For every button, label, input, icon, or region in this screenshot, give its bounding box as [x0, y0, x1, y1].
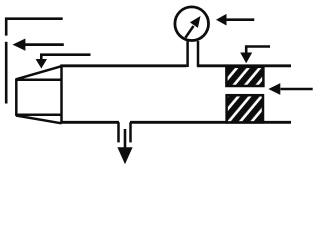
gauge needle [185, 16, 200, 38]
porous plug upper (hatched block) [226, 67, 263, 86]
bent arrow B (onto nozzle cone) [36, 55, 91, 69]
flow arrow A (upper-left, pointing left) [13, 39, 64, 51]
pressure gauge dial [175, 7, 209, 41]
outlet pipe walls [119, 122, 131, 142]
pipe top wall [60, 64, 291, 67]
nozzle cone (inlet reducer) [15, 65, 61, 123]
pipe bottom wall [60, 121, 291, 124]
outlet flow arrow F (downward) [117, 129, 132, 164]
porous plug lower (hatched block) [227, 95, 263, 122]
bent arrow E (onto pipe above porous plug) [240, 47, 270, 64]
gauge stem [188, 41, 198, 67]
arrow D into slot (pointing left) [268, 83, 312, 95]
wire bracket top-left [6, 19, 63, 104]
arrow C to gauge (pointing left) [216, 14, 254, 26]
